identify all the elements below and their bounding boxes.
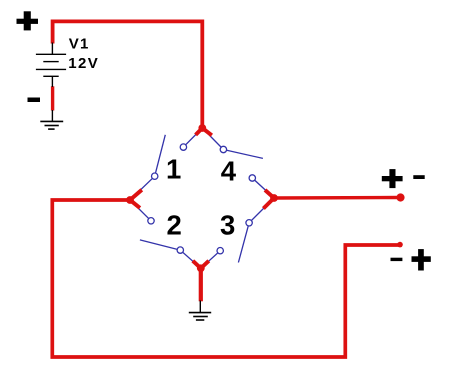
svg-text:V1: V1: [69, 35, 90, 52]
svg-text:1: 1: [166, 154, 181, 185]
svg-text:12V: 12V: [68, 55, 99, 72]
svg-text:2: 2: [167, 209, 182, 240]
svg-text:3: 3: [220, 210, 235, 241]
svg-text:4: 4: [221, 155, 237, 186]
